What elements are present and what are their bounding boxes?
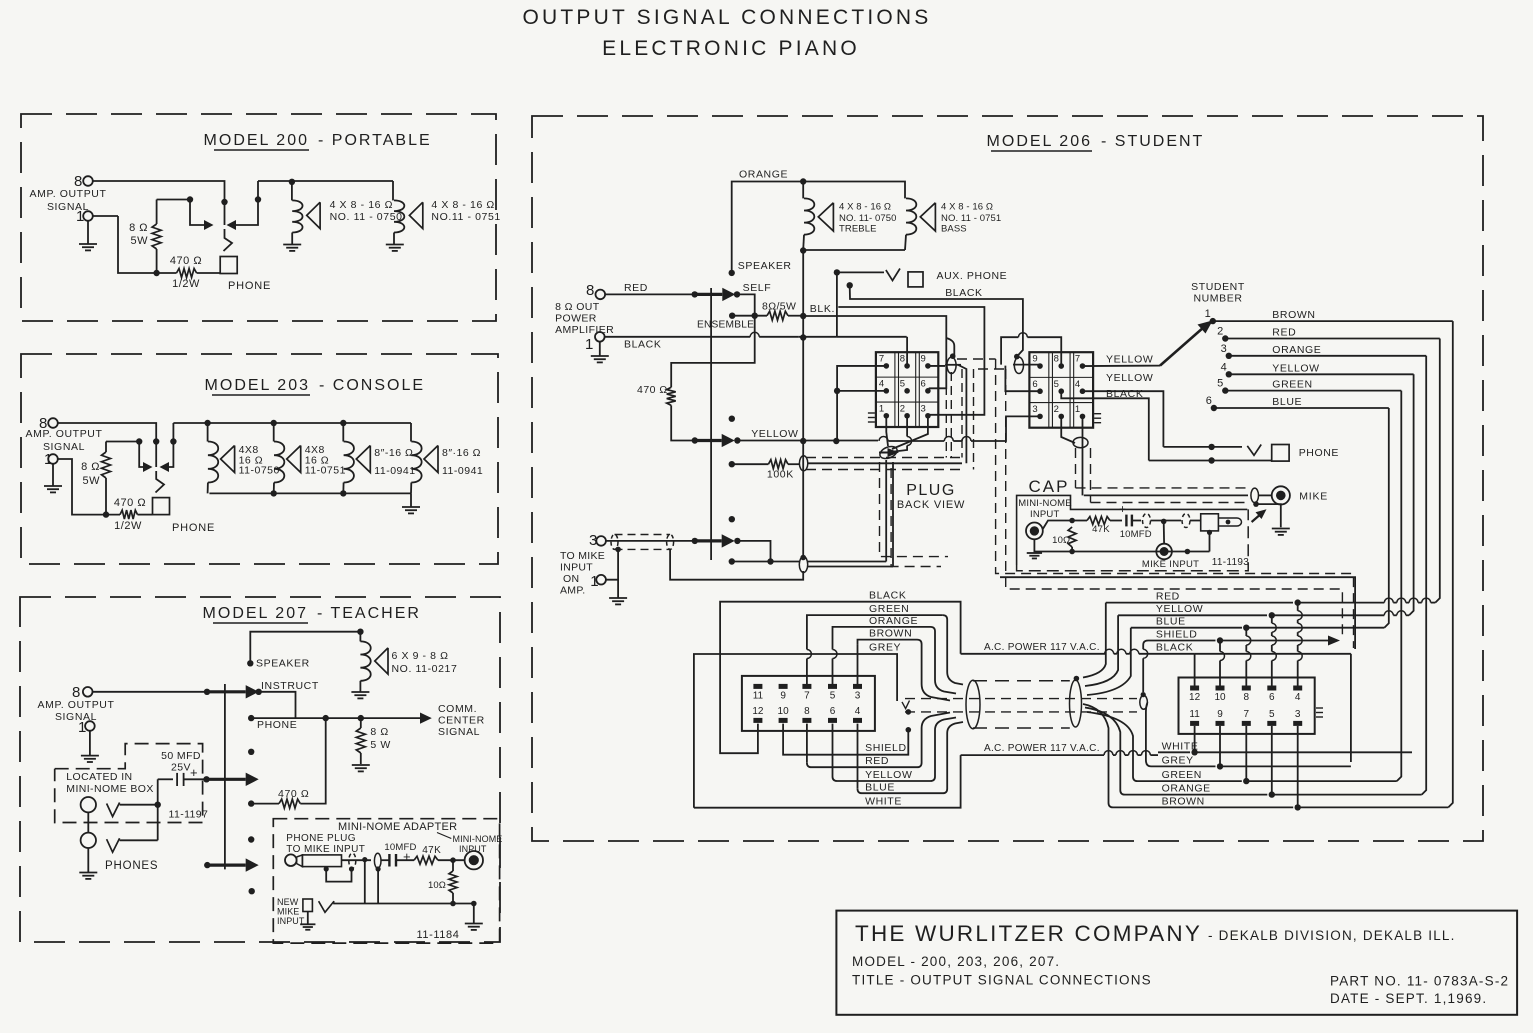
wire aux sleeve to cap shield: [850, 285, 1023, 356]
wire mike 3 to arrow: [605, 540, 695, 542]
junction dot speaker transformer: [357, 629, 363, 635]
wire cap pin2 down shield: [1061, 416, 1075, 443]
svg-text:BROWN: BROWN: [1272, 309, 1315, 321]
svg-text:7: 7: [879, 354, 884, 365]
wire aux phone tip: [837, 271, 884, 273]
svg-text:AMP. OUTPUT: AMP. OUTPUT: [30, 188, 107, 200]
svg-text:GREEN: GREEN: [1272, 379, 1312, 391]
svg-text:11-1197: 11-1197: [169, 809, 209, 821]
wire black ac pin12 left connector: [720, 602, 961, 754]
blue line right connector: [1087, 628, 1131, 695]
small shielded tube in cable: [905, 698, 1137, 700]
wire pin9 right to shield: [928, 365, 945, 367]
svg-text:1: 1: [1205, 308, 1211, 320]
wire plug pin8 up: [906, 337, 908, 366]
svg-text:2: 2: [900, 404, 905, 415]
wire orange pin5 left connector: [832, 659, 834, 686]
cap 9-pin connector: [1029, 352, 1093, 428]
svg-text:3: 3: [1221, 343, 1227, 355]
svg-text:+: +: [190, 765, 199, 780]
svg-text:10Ω: 10Ω: [428, 880, 446, 891]
svg-text:MIKE INPUT: MIKE INPUT: [1142, 559, 1199, 570]
svg-text:10MFD: 10MFD: [384, 842, 416, 853]
svg-text:NO. 11-0217: NO. 11-0217: [392, 663, 458, 675]
aux phone square: [908, 272, 923, 287]
orange wire from speaker contact: [732, 182, 804, 273]
junction dot treble top: [800, 178, 806, 184]
svg-text:3: 3: [921, 404, 926, 415]
resistor 8 ohm 5W model 207: [360, 718, 362, 728]
speaker triangle bass: [920, 203, 935, 231]
speaker triangle 2 model 203: [287, 446, 301, 473]
svg-text:BLUE: BLUE: [865, 782, 895, 794]
small tube right oval: [1140, 695, 1148, 709]
speaker triangle 1 model 203: [221, 446, 235, 473]
svg-text:5: 5: [1217, 378, 1223, 390]
wire blue pin4 left connector: [857, 724, 859, 789]
svg-text:SHIELD: SHIELD: [1156, 629, 1198, 641]
jack contact dot mike return: [729, 558, 735, 564]
wire blue pin8 up: [1245, 661, 1247, 686]
jack bus line model 206: [710, 288, 712, 560]
speaker contact dot: [247, 660, 253, 666]
wire shield drain down: [376, 866, 381, 871]
mike hot wire: [1084, 494, 1248, 496]
svg-text:6: 6: [921, 379, 926, 390]
ground mike 206: [1272, 529, 1290, 535]
wire cap pin8 up and left: [1027, 337, 1061, 366]
wire cap pin7 yellow1: [1082, 365, 1160, 367]
wire black terminal 1 to plug pin 8: [604, 336, 750, 338]
ground speaker transformer 207: [351, 692, 369, 698]
new mike input square: [303, 899, 313, 912]
svg-text:ELECTRONIC PIANO: ELECTRONIC PIANO: [602, 37, 860, 60]
svg-text:MINI-NOME: MINI-NOME: [453, 834, 503, 844]
svg-text:PHONE PLUG: PHONE PLUG: [286, 833, 356, 844]
svg-text:A.C. POWER 117 V.A.C.: A.C. POWER 117 V.A.C.: [984, 642, 1100, 653]
wire grey pin9 down: [1219, 726, 1221, 742]
junction dot tip model 203: [153, 438, 159, 444]
bass transformer coil: [906, 198, 916, 234]
svg-text:9: 9: [1217, 709, 1223, 720]
speaker triangle T2: [409, 202, 422, 228]
svg-text:WHITE: WHITE: [1162, 741, 1199, 753]
wires plug pins 1 2 3 down to cable: [886, 416, 888, 446]
blk branch to plug cable shield: [946, 338, 954, 358]
arrow bottom jack 207: [204, 862, 210, 868]
model 203 dashed enclosure: [21, 354, 498, 564]
wire to bass transformer top: [803, 182, 905, 199]
arrow into jack from right: [227, 220, 237, 230]
bottom return wire model 203: [57, 459, 120, 515]
svg-text:PLUG: PLUG: [906, 482, 956, 499]
wire black up to aux phone: [836, 272, 838, 336]
svg-text:MODEL - 200, 203, 206, 207.: MODEL - 200, 203, 206, 207.: [852, 954, 1060, 969]
mike ground wire: [1256, 504, 1281, 527]
svg-text:6: 6: [1206, 395, 1212, 407]
cap shield oval pin9: [1014, 357, 1023, 373]
wire instruct to phone line: [259, 692, 296, 718]
small tube dots: [906, 709, 912, 715]
wire plug pin7 and pin4 to yellow: [837, 366, 886, 441]
student number arrow: [1160, 327, 1204, 366]
plug sleeve U wire: [326, 869, 351, 882]
speaker transformer 3 model 203 coil: [342, 423, 344, 442]
svg-text:SHIELD: SHIELD: [865, 742, 907, 754]
ground 8 ohm resistor 207: [352, 765, 370, 771]
svg-text:YELLOW: YELLOW: [1272, 362, 1319, 374]
svg-text:- DEKALB DIVISION, DEKALB ILL.: - DEKALB DIVISION, DEKALB ILL.: [1208, 928, 1456, 943]
plug tip 1193: [1218, 517, 1237, 519]
svg-text:YELLOW: YELLOW: [751, 428, 798, 440]
phone plug symbol: [285, 854, 297, 866]
svg-text:100K: 100K: [767, 469, 794, 481]
wire cap pin5 black: [1061, 391, 1149, 460]
junction dot 10 ohm top: [1069, 518, 1075, 524]
svg-text:1: 1: [1075, 404, 1080, 415]
phone jack square model 200: [220, 257, 237, 274]
svg-text:MINI-NOME BOX: MINI-NOME BOX: [66, 783, 153, 795]
ground new mike input: [307, 912, 309, 925]
svg-text:47K: 47K: [1092, 524, 1110, 535]
svg-text:9: 9: [921, 354, 926, 365]
arrow self: [695, 293, 723, 296]
brown line right: [1083, 704, 1293, 807]
ground transformer T2: [386, 245, 404, 251]
shield arrow right: [1328, 636, 1340, 646]
svg-text:11: 11: [1189, 709, 1200, 720]
svg-text:PHONE: PHONE: [1299, 447, 1339, 459]
speaker transformer 11-0217 coil: [359, 632, 361, 642]
junction dot transformer 1 top: [289, 179, 295, 185]
svg-text:4: 4: [1221, 361, 1227, 373]
resistor 8 ohm 5W model 203: [105, 442, 107, 453]
svg-text:8: 8: [1244, 692, 1250, 703]
svg-text:SPEAKER: SPEAKER: [256, 658, 310, 670]
speaker triangle 207: [375, 648, 388, 674]
wire orange pin5 down: [1271, 726, 1273, 795]
svg-text:4 X 8 - 16 Ω: 4 X 8 - 16 Ω: [839, 202, 891, 213]
svg-text:4 X 8 - 16 Ω: 4 X 8 - 16 Ω: [431, 199, 495, 211]
jack bus line model 207: [224, 684, 226, 869]
svg-text:5: 5: [1269, 709, 1275, 720]
mini-nome input jack adapter: [465, 851, 483, 869]
svg-text:12: 12: [1189, 692, 1201, 703]
svg-text:- CONSOLE: - CONSOLE: [319, 377, 425, 394]
svg-text:ORANGE: ORANGE: [1272, 344, 1321, 356]
mike shield drain dot: [1253, 501, 1259, 507]
svg-text:BLK.: BLK.: [810, 303, 835, 315]
wire cap to shield 1193: [1132, 520, 1141, 522]
junction dot tip contact: [221, 199, 227, 205]
jack contact dot 4: [248, 836, 254, 842]
svg-text:NO.11 - 0751: NO.11 - 0751: [431, 211, 500, 223]
wire switch box down: [1207, 530, 1212, 535]
wire jack1 to cap: [120, 804, 158, 806]
svg-text:A.C. POWER 117 V.A.C.: A.C. POWER 117 V.A.C.: [984, 743, 1100, 754]
ac power lower line white: [961, 754, 1104, 756]
svg-text:MODEL 203: MODEL 203: [205, 377, 310, 394]
svg-text:RED: RED: [1156, 591, 1180, 603]
svg-text:11-1184: 11-1184: [417, 929, 460, 941]
svg-text:GREEN: GREEN: [1162, 769, 1202, 781]
wire white pin11 down: [1194, 726, 1196, 752]
junction dot mike input top: [1161, 519, 1167, 525]
junction dot at 8 ohm branch: [187, 196, 193, 202]
speaker transformer 4 model 203 coil: [410, 423, 412, 442]
svg-text:SELF: SELF: [743, 282, 772, 294]
mike shield dot left: [615, 547, 621, 553]
wire jack to 10ohm: [1043, 521, 1072, 530]
svg-text:8 Ω: 8 Ω: [370, 726, 388, 738]
arrow pointing to mike: [1252, 513, 1262, 522]
svg-text:AUX. PHONE: AUX. PHONE: [937, 270, 1008, 282]
svg-text:4 X 8 - 16 Ω: 4 X 8 - 16 Ω: [941, 202, 993, 213]
svg-text:10: 10: [778, 706, 790, 717]
junction dots on speaker bus: [204, 420, 210, 426]
resistor 8 ohm 5W: [156, 200, 158, 225]
transformer T1 11-0750 coil: [291, 182, 293, 201]
phone jack V 206: [1247, 445, 1261, 456]
jack contact dot 2: [248, 749, 254, 755]
svg-text:BROWN: BROWN: [1162, 796, 1205, 808]
wire shield pin10 up: [1219, 661, 1221, 686]
mike cable shield oval: [1251, 488, 1259, 503]
svg-text:BASS: BASS: [941, 223, 967, 234]
wire cap pin9 left: [1013, 364, 1040, 366]
svg-text:6: 6: [1269, 692, 1275, 703]
switch box 1193: [1201, 514, 1219, 531]
wire green pin7 down: [1245, 726, 1247, 744]
svg-text:8″·16 Ω: 8″·16 Ω: [442, 447, 481, 459]
svg-text:6: 6: [830, 706, 836, 717]
arrow mike: [692, 538, 698, 544]
svg-text:11-1193: 11-1193: [1212, 557, 1249, 568]
wire green pin7 left connector: [806, 659, 808, 686]
resistor 47K 1193: [1072, 520, 1087, 522]
phones jack circle 1: [81, 797, 96, 812]
plug shield oval pin9: [947, 357, 956, 373]
svg-text:5W: 5W: [131, 235, 149, 247]
svg-text:BLUE: BLUE: [1156, 616, 1186, 628]
svg-text:ORANGE: ORANGE: [869, 615, 918, 627]
mike shield ground wire: [605, 549, 618, 579]
cable ellipse top dot: [1074, 676, 1080, 682]
svg-text:8 Ω: 8 Ω: [129, 222, 148, 234]
mini-nome input jack 1193: [1026, 523, 1043, 540]
svg-text:PHONES: PHONES: [105, 860, 158, 872]
svg-text:YELLOW: YELLOW: [1106, 354, 1153, 366]
svg-text:YELLOW: YELLOW: [1156, 603, 1203, 615]
speaker wire top model 207: [250, 632, 360, 663]
arrow 50MFD line: [203, 776, 209, 782]
ground adapter: [473, 904, 475, 924]
svg-text:8: 8: [1054, 354, 1059, 365]
junction dot sleeve contact: [255, 196, 261, 202]
resistor 10 ohm 1193: [1068, 527, 1076, 547]
svg-text:BLUE: BLUE: [1272, 396, 1302, 408]
speaker bottom bus model 203: [209, 492, 411, 494]
plug cable shield stub dot: [950, 353, 956, 359]
svg-text:BLACK: BLACK: [1106, 388, 1143, 400]
svg-text:MODEL 200: MODEL 200: [204, 132, 309, 149]
resistor 100K: [768, 460, 788, 469]
svg-text:ON: ON: [563, 573, 579, 585]
svg-text:MINI-NOME ADAPTER: MINI-NOME ADAPTER: [338, 821, 457, 833]
svg-text:4: 4: [1075, 379, 1080, 390]
svg-text:ORANGE: ORANGE: [739, 169, 788, 181]
wire 100k line: [732, 463, 769, 465]
left 12-pin connector: [742, 676, 875, 731]
ground terminal 1 model 207: [89, 730, 91, 755]
wire bottom return model 200: [118, 216, 177, 273]
phones jack V 2: [107, 838, 120, 852]
svg-text:LOCATED IN: LOCATED IN: [66, 771, 132, 783]
svg-text:6 X 9 - 8 Ω: 6 X 9 - 8 Ω: [392, 650, 449, 662]
arrow instruct: [207, 690, 246, 693]
junction dot 47k-10ohm: [450, 857, 456, 863]
wire blk to plug pin 6: [803, 316, 946, 388]
svg-text:5: 5: [900, 379, 905, 390]
jack contact dot spare upper: [729, 416, 735, 422]
ac power upper line: [961, 653, 1105, 655]
svg-text:11-0941: 11-0941: [374, 465, 415, 477]
svg-text:TO MIKE INPUT: TO MIKE INPUT: [286, 844, 365, 855]
solid shield drain right: [1000, 577, 1355, 649]
svg-text:5: 5: [1054, 379, 1059, 390]
svg-text:DATE - SEPT. 1,1969.: DATE - SEPT. 1,1969.: [1330, 991, 1487, 1006]
ground phones: [87, 848, 89, 872]
svg-text:MODEL 207: MODEL 207: [203, 605, 308, 622]
svg-text:TITLE - OUTPUT SIGNAL CONN: TITLE - OUTPUT SIGNAL CONNECTIONS: [852, 973, 1152, 988]
junction dot black vertical: [800, 334, 806, 340]
cable assembly big: [966, 680, 980, 728]
mike cable dashed shield verticals: [1075, 448, 1077, 488]
ground mike shield: [609, 598, 627, 604]
svg-text:PART NO. 11- 0783A-S-2: PART NO. 11- 0783A-S-2: [1330, 974, 1509, 989]
ensemble contact dot: [729, 313, 735, 319]
speaker triangle T1: [307, 202, 320, 228]
svg-text:MODEL 206: MODEL 206: [987, 133, 1092, 150]
svg-text:YELLOW: YELLOW: [1106, 372, 1153, 384]
wire 8 ohm branch model 203: [106, 441, 139, 443]
svg-text:3: 3: [855, 690, 861, 701]
svg-text:6: 6: [1032, 379, 1037, 390]
ground bus 1193: [1034, 539, 1209, 551]
svg-text:MIKE: MIKE: [277, 907, 299, 917]
jack contact dot spare lower: [729, 516, 735, 522]
svg-text:BROWN: BROWN: [869, 628, 912, 640]
svg-text:ORANGE: ORANGE: [1162, 783, 1211, 795]
svg-text:STUDENT: STUDENT: [1191, 281, 1245, 293]
svg-text:INPUT: INPUT: [1030, 509, 1060, 520]
wire cap pin1 down to mike: [1081, 416, 1083, 495]
phone jack tip line 206: [1163, 446, 1242, 448]
speaker triangle 4 model 203: [424, 446, 438, 473]
white line right: [1158, 751, 1190, 753]
svg-text:11-0750: 11-0750: [239, 465, 280, 477]
svg-text:COMM.: COMM.: [438, 703, 477, 715]
plug cable shield oval bottom: [878, 444, 899, 461]
svg-text:+: +: [1119, 502, 1127, 516]
resistor 470 ohm model 207: [251, 803, 279, 805]
wire plug tip to cap: [342, 859, 372, 861]
wire shield down: [364, 860, 366, 904]
shield oval 100k cable: [799, 456, 807, 471]
svg-text:47K: 47K: [422, 845, 441, 856]
svg-text:12: 12: [752, 706, 764, 717]
svg-text:TO MIKE: TO MIKE: [560, 550, 605, 562]
capacitor 10MFD adapter: [381, 859, 389, 861]
svg-text:8: 8: [586, 282, 595, 299]
wire mike to shield oval: [737, 541, 770, 562]
jack contact dot 100k: [729, 461, 735, 467]
svg-text:OUTPUT SIGNAL CONNECTIONS: OUTPUT SIGNAL CONNECTIONS: [522, 6, 931, 29]
svg-text:25V: 25V: [171, 762, 191, 774]
svg-text:8″-16 Ω: 8″-16 Ω: [374, 447, 413, 459]
svg-text:AMP. OUTPUT: AMP. OUTPUT: [26, 428, 103, 440]
svg-text:2: 2: [1217, 326, 1223, 338]
capacitor 50MFD: [158, 778, 173, 780]
wire branch to jack tip arrow: [190, 200, 207, 226]
svg-text:CAP: CAP: [1029, 477, 1070, 496]
svg-text:3: 3: [1032, 404, 1037, 415]
junction dot sleeve model 203: [170, 438, 176, 444]
svg-text:470 Ω: 470 Ω: [278, 788, 309, 800]
svg-text:9: 9: [1032, 354, 1037, 365]
svg-text:RED: RED: [624, 282, 648, 294]
svg-text:NO. 11 - 0750: NO. 11 - 0750: [330, 211, 403, 223]
wire self to ensemble branch: [671, 294, 755, 385]
model 200 dashed enclosure: [21, 114, 496, 321]
svg-text:CENTER: CENTER: [438, 715, 485, 727]
plug body contact dots: [324, 866, 329, 871]
phone jack square model 203: [153, 498, 170, 515]
dashed mike shield pair: [880, 462, 949, 557]
adapter ground bus: [333, 903, 474, 905]
mini-nome input box 11-1193: [1017, 495, 1248, 565]
wire sleeve vertical model 203: [163, 423, 173, 467]
ground speaker bus model 203: [410, 493, 412, 507]
aux phone tip contact dot: [834, 269, 840, 275]
svg-text:INPUT: INPUT: [560, 562, 593, 574]
dashed box located in mini-nome: [55, 744, 203, 823]
100k shielded line: [808, 462, 962, 464]
ac power upper to right connector black: [1195, 653, 1351, 655]
green line right: [1087, 712, 1242, 781]
leader line to mini-nome input: [437, 833, 451, 839]
svg-text:POWER: POWER: [555, 313, 597, 325]
yellow wire right: [737, 440, 878, 442]
svg-text:TREBLE: TREBLE: [839, 223, 877, 234]
svg-text:GREEN: GREEN: [869, 603, 909, 615]
ground terminal 1 model 206: [599, 341, 601, 356]
aux phone jack V: [886, 269, 900, 281]
svg-text:470 Ω: 470 Ω: [114, 497, 146, 509]
resistor 470 ohm model 206: [670, 385, 672, 387]
svg-text:10MFD: 10MFD: [1120, 529, 1152, 540]
wire terminal 8 to jack model 203: [57, 423, 156, 467]
right connector comb: [1316, 716, 1323, 718]
phone sleeve line: [1149, 460, 1272, 462]
wire jack2 to junction: [120, 839, 158, 841]
model 206 dashed enclosure: [532, 116, 1483, 841]
svg-text:1/2W: 1/2W: [172, 278, 200, 290]
phone jack tip chevron model 200: [224, 229, 233, 251]
orange line right: [1085, 708, 1267, 795]
wire cap pin4 yellow2: [1082, 391, 1163, 447]
junction dot shield: [362, 857, 367, 862]
